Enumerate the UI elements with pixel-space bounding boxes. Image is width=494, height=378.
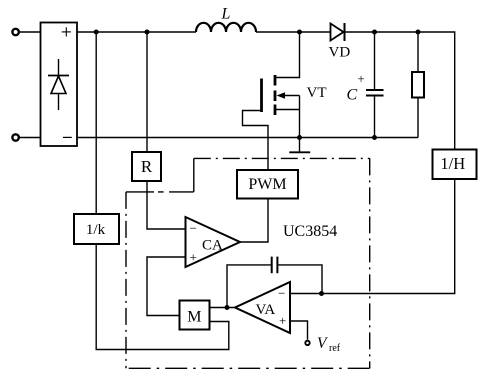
node dot x=96 top (94, 30, 99, 35)
wire R net upper (146, 32, 148, 152)
svg-text:PWM: PWM (248, 176, 286, 193)
svg-text:VT: VT (307, 85, 327, 101)
svg-text:R: R (141, 157, 153, 176)
svg-text:L: L (221, 6, 231, 23)
block M (180, 301, 210, 330)
wire bottom rail (77, 137, 418, 139)
svg-text:ref: ref (329, 343, 341, 354)
inductor L (196, 23, 256, 32)
node dot x=147 top (145, 30, 150, 35)
svg-text:CA: CA (202, 238, 223, 254)
input terminal bottom (12, 134, 18, 140)
transistor VT drain wire (275, 32, 300, 78)
transistor VT source wire (275, 109, 300, 111)
node dot VA output (225, 305, 230, 310)
wire input top (19, 31, 41, 33)
node dot x=300 bottom (297, 135, 302, 140)
wire CA output to PWM (240, 199, 268, 243)
node dot x=374 top (372, 30, 377, 35)
wire VT source down (299, 96, 301, 138)
svg-text:M: M (187, 308, 201, 325)
capacitor C leads (374, 32, 376, 90)
wire 1/k net lower (96, 244, 229, 350)
svg-text:1/H: 1/H (440, 154, 465, 173)
svg-text:+: + (279, 313, 286, 328)
wire top rail right (256, 31, 331, 33)
wire top rail left (77, 31, 196, 33)
block R (132, 152, 161, 181)
op-amp CA (186, 217, 241, 267)
wire M to VA output (210, 307, 236, 309)
wire top rail after diode (345, 32, 455, 150)
node dot feedback (319, 291, 324, 296)
node dot x=374 bottom (372, 135, 377, 140)
diode VD (331, 23, 345, 41)
svg-text:VA: VA (256, 302, 276, 318)
wire VT gate lead (243, 111, 269, 171)
wire VA noninverting to Vref (290, 321, 308, 340)
node dot x=300 top (297, 30, 302, 35)
node dot x=418 top (416, 30, 421, 35)
svg-text:−: − (278, 285, 285, 300)
svg-text:+: + (357, 71, 364, 86)
svg-text:VD: VD (329, 45, 351, 61)
wire 1/k net upper (95, 32, 97, 214)
bridge diode (48, 59, 69, 110)
block 1/k (74, 214, 119, 244)
svg-text:UC3854: UC3854 (283, 223, 337, 240)
block 1/H (433, 150, 477, 180)
transistor VT channel dashes (274, 75, 277, 115)
input terminal top (12, 29, 18, 35)
svg-text:1/k: 1/k (86, 222, 106, 238)
op-amp VA (235, 282, 290, 333)
bridge rectifier box (41, 23, 78, 147)
resistor load (412, 72, 424, 98)
svg-text:+: + (190, 250, 197, 265)
wire CA noninverting input to M (147, 257, 186, 316)
wire load bottom (417, 98, 419, 138)
svg-text:C: C (347, 87, 358, 104)
ground (289, 138, 310, 153)
capacitor feedback leads (227, 265, 272, 308)
svg-text:−: − (190, 221, 197, 236)
svg-text:V: V (317, 335, 328, 352)
terminal Vref (305, 341, 309, 345)
label - (bridge) (63, 136, 72, 138)
capacitor feedback plates (272, 257, 278, 274)
dashed box UC3854 (126, 158, 370, 368)
transistor VT body arrow (277, 92, 300, 99)
wire input bottom (19, 137, 41, 139)
capacitor C plates (366, 90, 384, 96)
wire VA inverting input to 1/H (290, 179, 455, 294)
block PWM (237, 170, 298, 199)
wire load top (417, 32, 419, 72)
wire R to CA inverting input (147, 181, 186, 229)
transistor VT gate bar (260, 79, 263, 113)
label + (bridge) (62, 27, 71, 36)
